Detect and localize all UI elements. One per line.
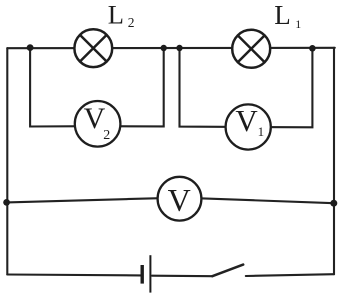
wire switch contact to bottom right corner bbox=[246, 274, 334, 276]
wire left vertical bbox=[6, 48, 8, 274]
wire middle left (to voltmeter V) bbox=[7, 198, 170, 203]
wire riser from node D down to V1 right bbox=[256, 48, 312, 127]
wire top horizontal bbox=[7, 47, 335, 50]
wire riser from node A down to V2 left bbox=[30, 48, 90, 127]
svg-text:L: L bbox=[274, 0, 291, 30]
lamp L2 cross bbox=[80, 35, 106, 61]
battery negative plate (short thick) bbox=[140, 265, 143, 284]
wire riser from node B down to V2 right bbox=[105, 48, 164, 126]
lamp L1 circle bbox=[232, 30, 270, 68]
svg-text:2: 2 bbox=[103, 128, 110, 143]
node B junction dot bbox=[161, 45, 167, 51]
node C junction dot bbox=[176, 45, 182, 51]
battery positive plate (long thin) bbox=[149, 255, 151, 292]
svg-text:1: 1 bbox=[295, 17, 301, 31]
wire bottom left (to battery) bbox=[7, 273, 140, 276]
svg-text:V: V bbox=[235, 103, 258, 138]
voltmeter V2 circle bbox=[75, 101, 121, 147]
svg-text:1: 1 bbox=[258, 124, 265, 139]
svg-text:2: 2 bbox=[128, 15, 135, 30]
node A junction dot bbox=[27, 44, 34, 51]
wire battery to switch bbox=[152, 275, 212, 278]
node E junction dot (left middle) bbox=[3, 199, 10, 206]
wire right vertical bbox=[333, 48, 335, 274]
node D junction dot bbox=[309, 45, 316, 52]
svg-text:L: L bbox=[108, 0, 124, 29]
wire riser from node C down to V1 left bbox=[180, 48, 241, 127]
svg-text:V: V bbox=[168, 182, 191, 218]
node F junction dot (right middle) bbox=[330, 200, 337, 207]
voltmeter V circle bbox=[158, 177, 202, 221]
voltmeter V1 circle bbox=[226, 104, 271, 149]
switch blade (open) bbox=[212, 265, 243, 277]
lamp L2 circle bbox=[74, 29, 112, 67]
lamp L1 cross bbox=[238, 36, 264, 62]
wire middle right (voltmeter V to right) bbox=[189, 198, 334, 203]
